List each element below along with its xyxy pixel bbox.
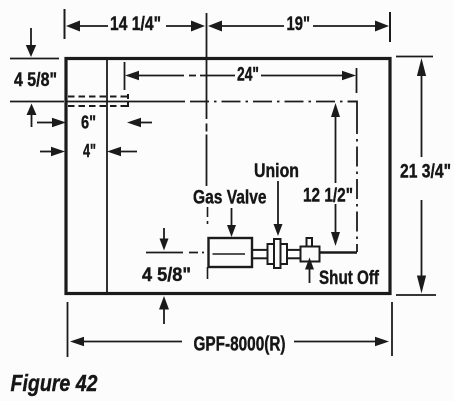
svg-text:14 1/4": 14 1/4" bbox=[110, 13, 161, 35]
svg-text:4": 4" bbox=[83, 140, 96, 161]
svg-text:12 1/2": 12 1/2" bbox=[303, 185, 353, 207]
svg-text:Figure 42: Figure 42 bbox=[11, 370, 98, 396]
svg-text:21 3/4": 21 3/4" bbox=[400, 161, 451, 183]
svg-text:Shut Off: Shut Off bbox=[319, 267, 379, 289]
svg-text:19": 19" bbox=[287, 13, 311, 35]
svg-text:4 5/8": 4 5/8" bbox=[142, 264, 191, 286]
svg-text:GPF-8000(R): GPF-8000(R) bbox=[194, 334, 286, 356]
svg-text:Union: Union bbox=[254, 160, 299, 182]
svg-text:6": 6" bbox=[81, 112, 96, 133]
svg-text:Gas Valve: Gas Valve bbox=[193, 187, 267, 209]
svg-text:4 5/8": 4 5/8" bbox=[14, 69, 57, 91]
svg-text:24": 24" bbox=[237, 64, 259, 86]
